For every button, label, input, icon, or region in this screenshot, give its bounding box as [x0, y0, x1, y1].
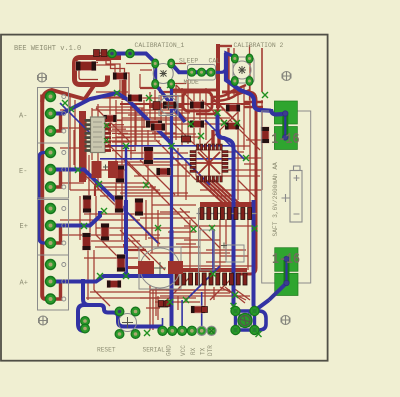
wire — [92, 96, 122, 240]
wire — [142, 108, 186, 200]
wire — [60, 235, 230, 253]
wire — [96, 92, 148, 115]
wire — [206, 250, 248, 262]
trimmer R_CAL1 pads — [152, 59, 175, 88]
via — [114, 90, 120, 96]
wire — [135, 98, 150, 150]
wire red fill band — [79, 111, 86, 182]
wire — [170, 89, 218, 92]
via — [96, 181, 102, 187]
wire — [122, 77, 127, 100]
wire — [227, 48, 229, 100]
connector block outline J3 J4 — [38, 200, 69, 311]
svg-text:A+: A+ — [20, 280, 28, 288]
svg-text:VCC: VCC — [180, 345, 187, 356]
wire reset blue 2 — [100, 305, 163, 327]
wire — [176, 80, 194, 146]
wire blue diagonal through cap — [155, 84, 185, 122]
buzzer pads — [138, 261, 154, 274]
via — [146, 95, 152, 101]
svg-text:RX: RX — [190, 347, 197, 355]
wire — [96, 214, 160, 259]
wire red bar through cap — [149, 103, 184, 108]
pad — [46, 126, 66, 136]
wire comb bus 1 — [200, 202, 252, 207]
via — [144, 330, 150, 336]
via — [209, 225, 215, 231]
wire — [96, 61, 125, 99]
via — [81, 223, 87, 229]
trimmer R_CAL2 pads — [231, 54, 253, 85]
wire — [96, 118, 232, 127]
connector pads row 1 — [200, 208, 252, 220]
wire — [261, 48, 263, 92]
resistor — [107, 281, 121, 288]
capacitor electrolytic silk — [153, 96, 178, 116]
via — [155, 225, 161, 231]
resistor — [157, 168, 171, 175]
wire — [213, 130, 219, 146]
svg-text:1-16: 1-16 — [271, 132, 299, 149]
wire — [120, 140, 190, 260]
wire — [236, 311, 245, 319]
wire — [96, 56, 120, 98]
wire switch blue — [246, 300, 269, 317]
wire — [162, 85, 200, 119]
resistor — [151, 124, 165, 131]
resistor — [116, 166, 124, 183]
wire — [112, 121, 136, 151]
battery holder silk — [262, 111, 311, 283]
resistor — [191, 306, 205, 313]
U2 pads left — [190, 151, 196, 173]
wire — [79, 120, 84, 147]
wire — [222, 92, 256, 196]
svg-text:E-: E- — [19, 168, 27, 176]
button pads row — [188, 68, 215, 76]
wire — [218, 45, 232, 47]
wire — [155, 88, 206, 146]
wire — [213, 90, 250, 101]
svg-text:CAL: CAL — [209, 58, 221, 65]
wire — [128, 92, 150, 110]
wire — [165, 275, 235, 302]
svg-text:1-16: 1-16 — [272, 252, 300, 269]
svg-text:BEE WEIGHT v.1.0: BEE WEIGHT v.1.0 — [14, 45, 81, 53]
svg-text:SAFT 3,6V/2600mAh AA: SAFT 3,6V/2600mAh AA — [272, 162, 279, 237]
resistor — [83, 196, 91, 213]
switch pads — [231, 306, 259, 334]
wire — [51, 282, 61, 300]
pad — [159, 301, 171, 307]
switch corner vias — [233, 308, 258, 333]
via — [234, 120, 240, 126]
pad — [46, 204, 66, 214]
via — [101, 208, 107, 214]
pad — [46, 294, 66, 304]
wire — [180, 226, 254, 266]
wire — [60, 110, 84, 183]
battery symbol — [282, 166, 303, 222]
header CAL1 pads — [108, 49, 134, 57]
via — [169, 143, 175, 149]
wire — [90, 185, 158, 253]
wire — [196, 108, 218, 114]
resistor — [144, 147, 153, 164]
via — [215, 110, 221, 116]
trimmer R_CAL2 silk — [233, 57, 254, 83]
wire — [171, 146, 220, 300]
wire — [238, 90, 262, 200]
op-amp U1 body — [91, 117, 106, 153]
svg-text:MODE: MODE — [184, 79, 200, 86]
reset button pads — [115, 307, 140, 338]
via — [188, 121, 194, 127]
resistor — [135, 199, 143, 216]
wire A+ blue bus — [51, 276, 172, 282]
wire — [92, 98, 250, 110]
wire — [150, 285, 214, 330]
resistor — [163, 102, 177, 109]
wire — [96, 65, 129, 101]
via — [123, 273, 129, 279]
battery clip pads bottom — [269, 248, 298, 300]
wire — [125, 146, 128, 200]
switch crosshair — [240, 315, 251, 326]
wire — [100, 158, 232, 160]
pad — [94, 50, 108, 57]
wire — [140, 290, 210, 310]
pad — [46, 277, 66, 287]
resistor — [117, 255, 125, 272]
svg-text:CALIBRATION_1: CALIBRATION_1 — [135, 42, 185, 49]
svg-text:CALIBRATION 2: CALIBRATION 2 — [234, 42, 284, 49]
wire — [80, 196, 94, 300]
wire — [200, 170, 262, 190]
resistor — [115, 196, 123, 213]
serial pads — [158, 326, 216, 335]
wire — [79, 63, 98, 80]
wire — [146, 293, 230, 308]
wire E+ blue — [51, 211, 101, 226]
wire fan from IC to comb — [198, 180, 240, 204]
via — [123, 143, 129, 149]
wire — [60, 214, 190, 241]
silk box — [200, 230, 214, 270]
wire rounded loop — [183, 92, 212, 111]
wire — [124, 200, 128, 276]
wire — [212, 229, 215, 272]
U2 pads right — [222, 151, 228, 173]
svg-text:DTR: DTR — [207, 345, 214, 356]
wire — [80, 108, 165, 270]
silk cross — [221, 243, 227, 249]
via — [232, 292, 238, 298]
wire — [51, 170, 61, 188]
wire — [244, 60, 256, 205]
resistor — [225, 123, 239, 130]
svg-text:TX: TX — [199, 347, 206, 355]
wire — [140, 70, 152, 88]
wire — [153, 287, 246, 330]
via — [191, 226, 197, 232]
silk connector line — [197, 213, 257, 215]
wire — [238, 180, 256, 198]
wire — [108, 131, 200, 165]
capacitor — [159, 301, 168, 307]
pad — [202, 307, 208, 313]
pad — [46, 182, 66, 192]
wire — [131, 101, 136, 160]
wire — [152, 92, 188, 137]
wire — [51, 226, 61, 244]
green terminal pads generated — [46, 92, 66, 305]
wire — [100, 120, 196, 193]
wire — [190, 219, 248, 273]
svg-text:SERIAL: SERIAL — [143, 347, 166, 354]
wire serial blue diagonals — [163, 292, 202, 326]
wire — [171, 64, 214, 73]
wire blue to battery via — [226, 53, 271, 111]
wire — [74, 120, 89, 200]
wire reset blue 1 — [78, 305, 89, 331]
switch silk — [239, 314, 252, 327]
wire — [126, 63, 151, 65]
U2 pads top — [197, 144, 223, 150]
buzzer silk — [139, 247, 181, 289]
wire — [240, 196, 256, 274]
resistor — [190, 121, 204, 128]
board outline — [1, 35, 328, 361]
wire — [218, 113, 234, 306]
pad — [46, 238, 66, 248]
resistor — [190, 102, 204, 109]
resistor — [101, 224, 109, 241]
via — [97, 273, 103, 279]
wire thick loop top-left — [75, 58, 122, 85]
wire — [70, 96, 75, 190]
pad — [46, 92, 66, 102]
resistor — [146, 121, 162, 128]
wire — [255, 311, 267, 330]
wire — [150, 290, 250, 302]
wire — [94, 290, 110, 306]
switch blue ring — [236, 311, 255, 330]
svg-text:RESET: RESET — [97, 347, 116, 354]
reset button silk — [119, 314, 137, 332]
via — [183, 297, 189, 303]
wire — [234, 45, 250, 100]
wire E- blue — [51, 170, 127, 212]
wire — [202, 100, 244, 130]
via — [143, 182, 149, 188]
via — [262, 92, 268, 98]
resistor — [261, 127, 269, 143]
wire — [211, 53, 235, 72]
wire — [140, 88, 200, 92]
pad — [46, 165, 66, 175]
resistor — [104, 115, 117, 122]
wire reset blue 0 — [83, 279, 100, 305]
wire comb bus 2 — [175, 268, 247, 272]
wire — [216, 44, 220, 108]
via — [62, 100, 68, 106]
wire — [60, 103, 245, 160]
wire — [225, 287, 250, 303]
connector block outline J1 J2 — [38, 88, 69, 199]
wire — [95, 183, 99, 196]
wire — [150, 110, 240, 248]
mcu U2 body — [196, 150, 222, 176]
svg-text:E+: E+ — [20, 223, 28, 231]
wire — [98, 52, 112, 54]
via — [210, 271, 216, 277]
silk box — [226, 245, 244, 262]
wire — [96, 107, 190, 118]
pad — [46, 221, 66, 231]
wire — [228, 140, 262, 164]
via — [167, 82, 173, 88]
wire — [42, 90, 84, 102]
wire — [70, 183, 230, 196]
wire horizontal bus — [100, 145, 232, 147]
capacitor — [182, 136, 191, 142]
fiducial — [281, 315, 290, 324]
resistor — [226, 105, 240, 112]
wire — [84, 258, 160, 298]
via — [167, 299, 173, 305]
via — [243, 155, 249, 161]
capacitor — [113, 73, 127, 80]
resistor — [83, 233, 91, 250]
via — [252, 226, 258, 232]
connector pads row 2 — [175, 273, 247, 285]
resistor — [128, 95, 142, 102]
pad — [46, 260, 66, 270]
U1 pins right — [105, 119, 111, 152]
U2 pads bottom — [197, 176, 223, 182]
reset feed pads — [81, 317, 90, 333]
wire long vertical mid — [170, 84, 173, 230]
wire — [51, 114, 61, 132]
button silk — [188, 65, 216, 81]
svg-text:SLEEP: SLEEP — [179, 58, 198, 65]
via — [198, 133, 204, 139]
electrolytic capacitor pads — [92, 161, 119, 178]
pad — [46, 148, 66, 158]
svg-text:A-: A- — [19, 113, 27, 121]
wire — [170, 64, 186, 84]
fiducial — [38, 316, 47, 325]
via — [256, 331, 262, 337]
wire bundle up-right — [213, 85, 246, 97]
fiducial — [37, 73, 46, 82]
wire A- blue — [51, 93, 172, 143]
wire — [124, 244, 146, 250]
U1 pins left — [85, 119, 91, 152]
wire left blue vertical — [39, 153, 51, 244]
silk line — [198, 208, 200, 286]
fiducial — [282, 71, 291, 80]
via — [221, 120, 227, 126]
via — [68, 106, 74, 112]
wire left connector red vertical — [42, 97, 50, 300]
wire — [170, 95, 260, 160]
wire blue cal1 header bus — [112, 54, 155, 85]
wire long vertical mid lower — [170, 230, 174, 326]
via — [231, 303, 237, 309]
pad — [46, 109, 66, 119]
wire — [84, 84, 95, 100]
wire diagonal center — [126, 211, 158, 243]
trimmer R_CAL1 silk — [153, 64, 173, 84]
wire — [120, 266, 140, 269]
via — [75, 167, 81, 173]
wire — [244, 102, 263, 107]
svg-text:GND: GND — [166, 345, 173, 356]
battery clip pads top — [271, 101, 297, 150]
wire — [140, 205, 196, 244]
resistor — [76, 62, 96, 71]
wire — [108, 144, 196, 194]
wire — [120, 103, 250, 105]
wire — [254, 200, 255, 311]
